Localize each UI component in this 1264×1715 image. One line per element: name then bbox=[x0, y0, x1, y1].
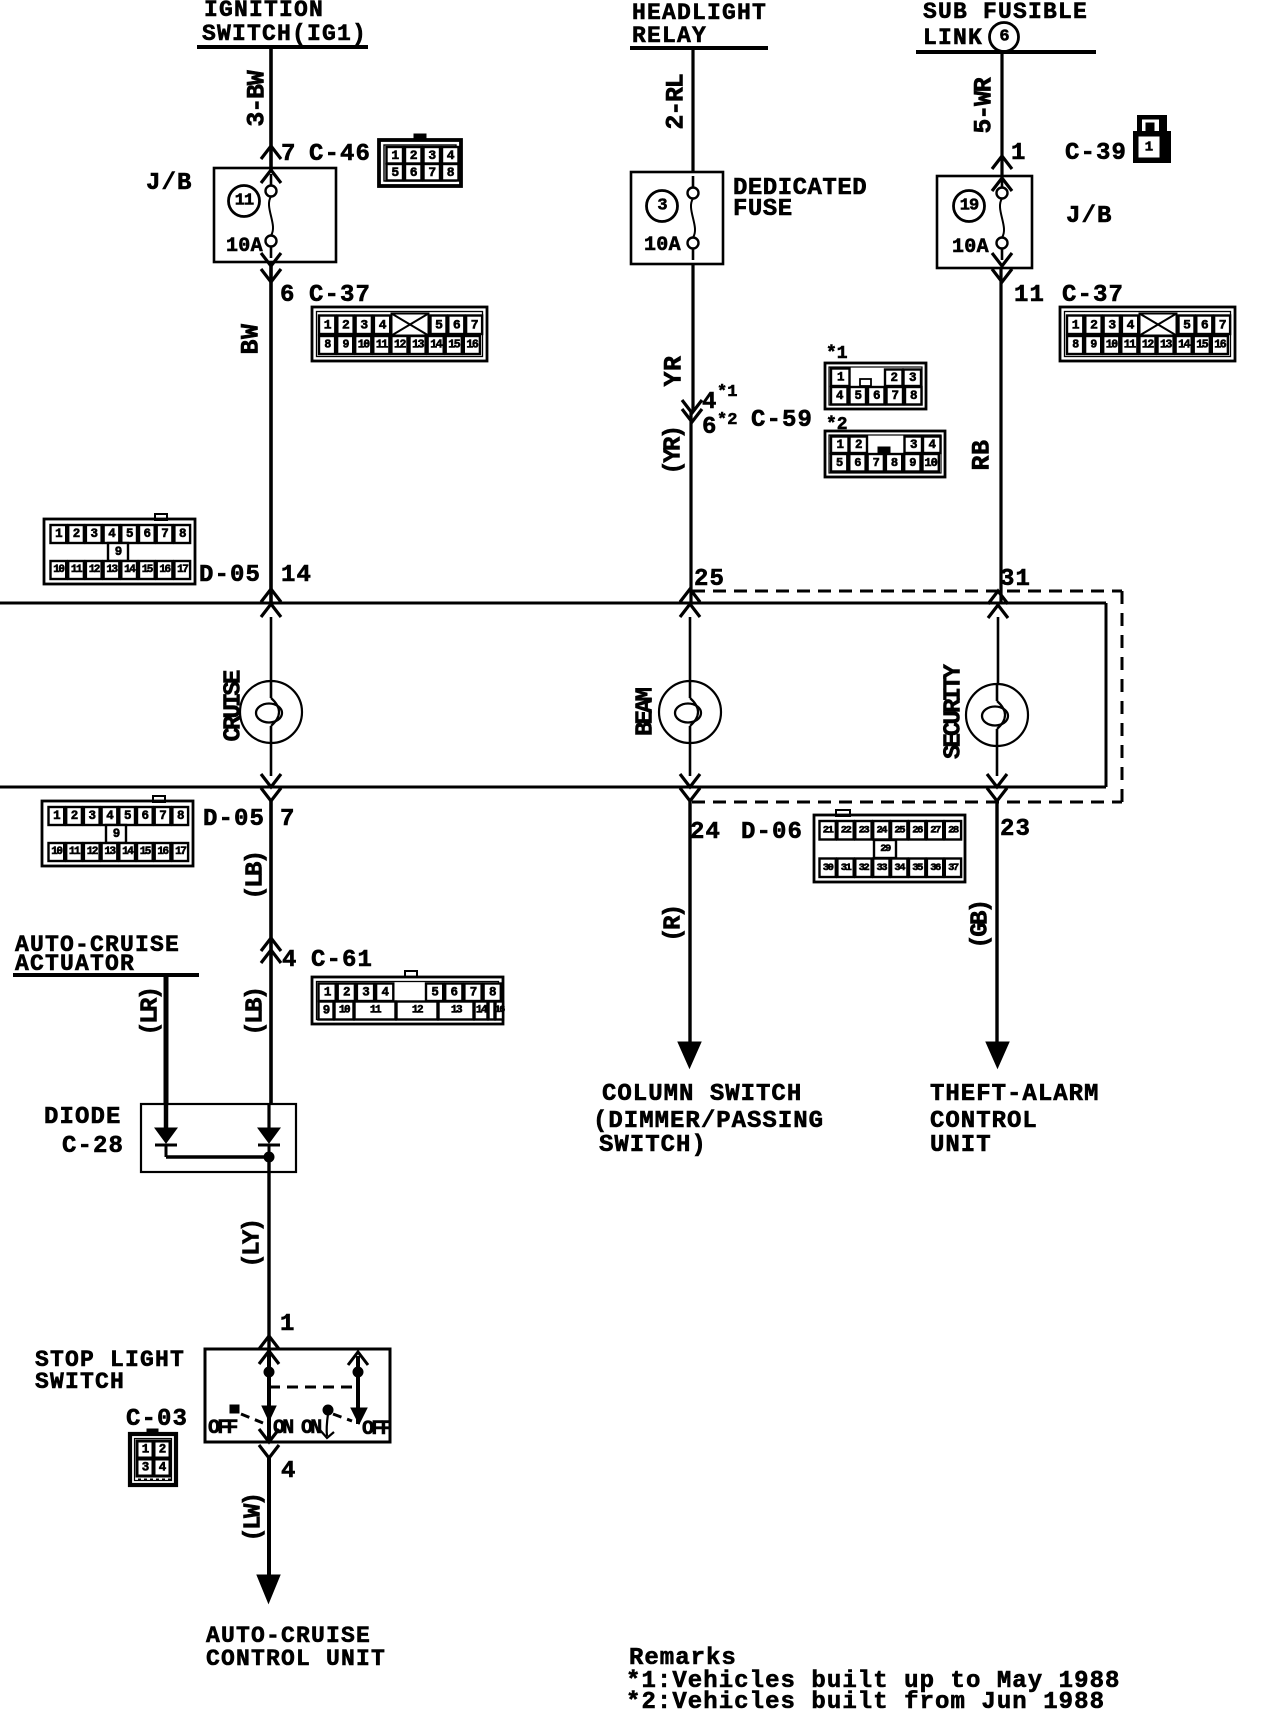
connector icon C-61 16-pin bbox=[312, 971, 505, 1024]
wire label (LW) bbox=[241, 1494, 268, 1541]
lamp label BEAM bbox=[633, 688, 660, 737]
svg-text:17: 17 bbox=[177, 564, 188, 576]
footnote marker *2 connector bbox=[826, 415, 848, 435]
destination label COLUMN SWITCH bbox=[593, 1081, 824, 1159]
svg-text:RELAY: RELAY bbox=[632, 23, 707, 49]
connector pin 11 C-37 bbox=[1014, 282, 1124, 309]
svg-text:2: 2 bbox=[891, 371, 898, 385]
svg-text:3-BW: 3-BW bbox=[243, 70, 272, 126]
svg-text:SWITCH: SWITCH bbox=[35, 1369, 125, 1395]
svg-text:OFF: OFF bbox=[208, 1417, 237, 1440]
svg-text:31: 31 bbox=[841, 862, 852, 874]
wire label (LB) lower bbox=[243, 988, 270, 1035]
svg-text:23: 23 bbox=[859, 824, 870, 836]
right switch travel arrow bbox=[320, 1414, 334, 1438]
meter pin 31 bbox=[988, 566, 1031, 618]
svg-text:4: 4 bbox=[379, 317, 387, 332]
wire label (GB) bbox=[968, 901, 995, 948]
svg-text:6: 6 bbox=[999, 28, 1009, 47]
svg-text:11: 11 bbox=[1124, 339, 1137, 352]
svg-text:(GB): (GB) bbox=[968, 901, 995, 948]
svg-text:12: 12 bbox=[1142, 339, 1155, 352]
svg-text:11: 11 bbox=[235, 192, 254, 211]
svg-text:CRUISE: CRUISE bbox=[221, 670, 248, 742]
wire LB from meter to diode bbox=[269, 801, 273, 1104]
switch internal left pole wire bbox=[267, 1349, 271, 1442]
svg-text:ON: ON bbox=[301, 1417, 321, 1440]
svg-text:D-05: D-05 bbox=[199, 562, 261, 589]
svg-text:IGNITION: IGNITION bbox=[204, 0, 324, 23]
svg-text:6: 6 bbox=[142, 809, 149, 823]
svg-text:12: 12 bbox=[89, 564, 100, 576]
svg-text:*1: *1 bbox=[717, 383, 737, 402]
svg-text:8: 8 bbox=[910, 389, 917, 403]
stop light switch pin 4 bbox=[259, 1429, 297, 1485]
svg-text:2: 2 bbox=[73, 527, 80, 541]
svg-text:25: 25 bbox=[894, 824, 905, 836]
indicator lamp SECURITY bbox=[966, 684, 1028, 746]
svg-text:15: 15 bbox=[448, 339, 461, 352]
svg-text:7: 7 bbox=[280, 806, 296, 833]
svg-text:(LY): (LY) bbox=[240, 1220, 267, 1267]
svg-text:C-37: C-37 bbox=[1062, 282, 1124, 309]
svg-text:C-28: C-28 bbox=[62, 1133, 124, 1160]
svg-text:16: 16 bbox=[159, 564, 170, 576]
svg-text:6: 6 bbox=[144, 527, 151, 541]
svg-text:3: 3 bbox=[89, 809, 96, 823]
connector pin 4 C-61 inline bbox=[261, 938, 373, 974]
svg-text:C-37: C-37 bbox=[309, 282, 371, 309]
fuse 11 circled number bbox=[229, 186, 260, 217]
svg-text:15: 15 bbox=[1196, 339, 1209, 352]
svg-text:SWITCH(IG1): SWITCH(IG1) bbox=[202, 21, 367, 47]
svg-text:14: 14 bbox=[281, 562, 312, 589]
svg-text:25: 25 bbox=[694, 566, 725, 593]
svg-text:3: 3 bbox=[428, 148, 436, 163]
svg-text:4: 4 bbox=[702, 389, 718, 416]
svg-text:4: 4 bbox=[1127, 317, 1135, 332]
svg-text:9: 9 bbox=[115, 545, 122, 559]
svg-text:5: 5 bbox=[855, 389, 862, 403]
dashed link between switch poles bbox=[269, 1386, 358, 1389]
svg-text:9: 9 bbox=[113, 827, 120, 841]
svg-text:5: 5 bbox=[435, 317, 443, 332]
connector label D-05 pin 7 bbox=[203, 806, 296, 833]
connector icon C-37 16-pin (right) bbox=[1060, 307, 1235, 361]
connector pin 1 C-39 bbox=[992, 140, 1127, 169]
svg-text:12: 12 bbox=[87, 846, 98, 858]
svg-text:13: 13 bbox=[1160, 339, 1173, 352]
svg-text:(LW): (LW) bbox=[241, 1494, 268, 1541]
arrowhead to column switch bbox=[678, 1042, 701, 1068]
junction block J/B (left) bbox=[146, 168, 336, 262]
svg-text:2: 2 bbox=[1090, 317, 1098, 332]
fuse symbol 10A in right J/B bbox=[952, 176, 1012, 260]
svg-text:4: 4 bbox=[447, 148, 455, 163]
fuse 3 circled number bbox=[647, 191, 678, 222]
svg-text:10A: 10A bbox=[952, 236, 989, 259]
svg-text:6: 6 bbox=[453, 317, 461, 332]
svg-text:J/B: J/B bbox=[146, 170, 193, 197]
right switch blade arrow bbox=[351, 1408, 367, 1424]
switch internal right pole wire bbox=[348, 1352, 368, 1424]
svg-text:8: 8 bbox=[489, 985, 496, 999]
switch position label OFF (right) bbox=[362, 1418, 391, 1441]
connector icon C-59 type *2 10-pin bbox=[825, 431, 945, 477]
destination label THEFT-ALARM CONTROL UNIT bbox=[930, 1081, 1099, 1159]
svg-text:14: 14 bbox=[1178, 339, 1191, 352]
svg-text:C-46: C-46 bbox=[309, 141, 371, 168]
svg-text:3: 3 bbox=[362, 985, 369, 999]
svg-text:2: 2 bbox=[159, 1443, 166, 1457]
svg-text:1: 1 bbox=[280, 1311, 296, 1338]
wire joining diodes bbox=[166, 1155, 269, 1159]
svg-text:27: 27 bbox=[930, 824, 941, 836]
svg-text:(YR): (YR) bbox=[661, 427, 688, 474]
destination label AUTO-CRUISE CONTROL UNIT bbox=[206, 1623, 386, 1672]
svg-text:*1: *1 bbox=[826, 344, 848, 364]
connector icon C-39 1-pin bbox=[1133, 115, 1171, 163]
connector icon C-37 16-pin (left) bbox=[312, 307, 487, 361]
svg-text:THEFT-ALARM: THEFT-ALARM bbox=[930, 1081, 1099, 1108]
wire BW from J/B to combination meter pin 14 bbox=[269, 262, 273, 603]
wire label BW bbox=[237, 323, 266, 354]
svg-text:1: 1 bbox=[53, 809, 60, 823]
svg-text:31: 31 bbox=[1000, 566, 1031, 593]
power source label IGNITION SWITCH(IG1) bbox=[197, 0, 368, 47]
svg-text:COLUMN SWITCH: COLUMN SWITCH bbox=[602, 1081, 802, 1108]
svg-text:19: 19 bbox=[960, 197, 979, 216]
wire LR from actuator to diode bbox=[164, 975, 169, 1104]
wire LY from diode to stop light switch bbox=[267, 1157, 270, 1349]
power source label SUB FUSIBLE LINK 6 bbox=[916, 0, 1096, 52]
remark footnote 1 bbox=[626, 1668, 1120, 1695]
svg-text:7: 7 bbox=[161, 527, 168, 541]
connector pin 6 C-37 bbox=[280, 282, 371, 309]
svg-text:4: 4 bbox=[281, 1458, 297, 1485]
lamp label SECURITY bbox=[941, 663, 968, 759]
connector icon D-06 17-pin bbox=[814, 810, 965, 882]
svg-text:2: 2 bbox=[342, 317, 350, 332]
connector icon D-05 17-pin (upper) bbox=[44, 514, 195, 584]
component label STOP LIGHT SWITCH bbox=[35, 1347, 185, 1395]
svg-text:34: 34 bbox=[894, 862, 905, 874]
svg-text:6: 6 bbox=[854, 456, 861, 470]
power source label HEADLIGHT RELAY bbox=[630, 0, 768, 49]
svg-text:SWITCH): SWITCH) bbox=[599, 1132, 707, 1159]
svg-text:10A: 10A bbox=[226, 235, 263, 258]
junction node left pole bbox=[264, 1367, 274, 1377]
svg-text:3: 3 bbox=[1108, 317, 1116, 332]
indicator lamp CRUISE bbox=[240, 681, 302, 743]
stop light switch pin 1 bbox=[259, 1311, 296, 1364]
wire RB from J/B to meter pin 31 bbox=[999, 268, 1002, 603]
wire label 3-BW bbox=[243, 70, 272, 126]
meter pin 25 bbox=[680, 566, 725, 617]
svg-text:1: 1 bbox=[324, 317, 332, 332]
svg-text:BW: BW bbox=[237, 323, 266, 354]
svg-text:16: 16 bbox=[466, 339, 479, 352]
svg-text:7: 7 bbox=[1219, 317, 1226, 332]
junction node in diode box bbox=[264, 1152, 274, 1162]
left switch blade arrow ON bbox=[262, 1406, 276, 1421]
fuse 19 circled number bbox=[954, 191, 985, 222]
svg-text:28: 28 bbox=[948, 824, 959, 836]
svg-text:10: 10 bbox=[358, 339, 371, 352]
svg-text:16: 16 bbox=[1214, 339, 1227, 352]
dashed option box around beam and security lamps bbox=[692, 591, 1122, 802]
svg-text:10: 10 bbox=[51, 846, 62, 858]
svg-text:CONTROL UNIT: CONTROL UNIT bbox=[206, 1646, 386, 1672]
svg-text:(LR): (LR) bbox=[138, 988, 165, 1035]
svg-text:YR: YR bbox=[660, 355, 689, 386]
svg-text:8: 8 bbox=[177, 809, 184, 823]
svg-text:10A: 10A bbox=[644, 234, 681, 257]
svg-text:C-59: C-59 bbox=[751, 407, 813, 434]
meter pin 24 arrows bbox=[680, 774, 700, 801]
svg-text:2-RL: 2-RL bbox=[662, 74, 691, 129]
svg-text:1: 1 bbox=[1145, 140, 1153, 156]
svg-text:1: 1 bbox=[55, 527, 62, 541]
svg-text:7: 7 bbox=[281, 141, 297, 168]
junction block J/B (right) bbox=[937, 176, 1113, 268]
svg-text:6: 6 bbox=[410, 165, 418, 180]
svg-text:8: 8 bbox=[447, 165, 455, 180]
switch position label ON (left) bbox=[273, 1417, 293, 1440]
wire through security lamp bbox=[997, 617, 998, 776]
inline connector C-59 pins 4/6 bbox=[682, 383, 813, 441]
svg-text:7: 7 bbox=[873, 456, 880, 470]
svg-text:2: 2 bbox=[71, 809, 78, 823]
left switch contact OFF position bbox=[230, 1405, 263, 1423]
meter pin 23 arrows bbox=[987, 774, 1007, 801]
wire label RB bbox=[968, 439, 997, 470]
wire label 2-RL bbox=[662, 74, 691, 129]
svg-text:RB: RB bbox=[968, 439, 997, 470]
svg-text:26: 26 bbox=[912, 824, 923, 836]
svg-text:(LB): (LB) bbox=[243, 988, 270, 1035]
svg-text:SECURITY: SECURITY bbox=[941, 663, 968, 759]
svg-text:3: 3 bbox=[360, 317, 368, 332]
svg-text:9: 9 bbox=[909, 456, 916, 470]
svg-text:1: 1 bbox=[324, 985, 331, 999]
svg-text:1: 1 bbox=[391, 148, 399, 163]
wire label (LB) upper bbox=[243, 852, 270, 899]
svg-text:24: 24 bbox=[876, 824, 887, 836]
connector label C-03 bbox=[126, 1406, 188, 1433]
svg-text:5: 5 bbox=[391, 165, 399, 180]
dedicated fuse label bbox=[733, 175, 867, 223]
wire 3-BW from ignition switch to J/B fuse 11 bbox=[269, 47, 273, 172]
connector icon D-05 17-pin (lower) bbox=[42, 796, 193, 866]
wire label (LR) bbox=[138, 988, 165, 1035]
wire label 5-WR bbox=[970, 77, 999, 133]
remarks heading bbox=[629, 1645, 737, 1672]
svg-text:22: 22 bbox=[841, 824, 852, 836]
svg-text:*2:Vehicles built from Jun 198: *2:Vehicles built from Jun 1988 bbox=[626, 1689, 1105, 1710]
component label AUTO-CRUISE ACTUATOR bbox=[13, 932, 199, 977]
svg-text:OFF: OFF bbox=[362, 1418, 391, 1441]
junction node right pole bbox=[353, 1367, 363, 1377]
svg-text:11: 11 bbox=[1014, 282, 1045, 309]
svg-text:C-61: C-61 bbox=[311, 947, 373, 974]
svg-text:5: 5 bbox=[126, 527, 133, 541]
svg-text:9: 9 bbox=[323, 1004, 330, 1018]
svg-text:7: 7 bbox=[470, 985, 477, 999]
connector icon C-03 4-pin bbox=[130, 1429, 176, 1485]
connector pin 7 C-46 with arrow bbox=[261, 141, 371, 168]
arrowhead to auto-cruise control unit bbox=[257, 1575, 280, 1603]
connector label 24 D-06 bbox=[690, 819, 803, 846]
svg-text:BEAM: BEAM bbox=[633, 688, 660, 737]
svg-text:LINK: LINK bbox=[923, 25, 983, 51]
wire 2-RL from headlight relay bbox=[691, 48, 694, 172]
svg-text:1: 1 bbox=[1072, 317, 1080, 332]
diode D2 (right) bbox=[258, 1104, 280, 1157]
combination meter box bbox=[0, 603, 1106, 787]
svg-text:6: 6 bbox=[280, 282, 296, 309]
wire LW to auto-cruise control unit bbox=[267, 1458, 271, 1596]
switch position label ON (right) bbox=[301, 1417, 321, 1440]
svg-text:2: 2 bbox=[343, 985, 350, 999]
svg-text:*2: *2 bbox=[717, 411, 737, 430]
svg-text:8: 8 bbox=[891, 456, 898, 470]
dedicated fuse box bbox=[631, 172, 723, 264]
wire YR from fuse to meter pin 25 bbox=[691, 264, 693, 603]
svg-text:J/B: J/B bbox=[1066, 203, 1113, 230]
svg-text:6: 6 bbox=[702, 414, 718, 441]
fuse symbol 10A in left J/B bbox=[226, 170, 281, 258]
arrows into combination meter pin 14 bbox=[261, 589, 281, 617]
svg-text:5: 5 bbox=[124, 809, 131, 823]
wire label (LY) bbox=[240, 1220, 267, 1267]
svg-text:12: 12 bbox=[394, 339, 407, 352]
svg-text:7: 7 bbox=[471, 317, 478, 332]
diode box C-28 bbox=[141, 1104, 296, 1172]
svg-text:(DIMMER/PASSING: (DIMMER/PASSING bbox=[593, 1108, 824, 1135]
svg-text:5: 5 bbox=[431, 985, 438, 999]
switch position label OFF (left) bbox=[208, 1417, 237, 1440]
remark footnote 2 bbox=[626, 1689, 1105, 1715]
arrows out of left J/B bbox=[261, 253, 281, 282]
svg-text:(LB): (LB) bbox=[243, 852, 270, 899]
svg-text:1: 1 bbox=[837, 438, 844, 452]
arrows out of right J/B bbox=[992, 253, 1012, 282]
svg-text:32: 32 bbox=[859, 862, 870, 874]
svg-text:5-WR: 5-WR bbox=[970, 77, 999, 133]
svg-text:1: 1 bbox=[837, 370, 844, 384]
stop light switch box bbox=[205, 1349, 390, 1442]
svg-text:21: 21 bbox=[823, 824, 834, 836]
svg-text:D-05: D-05 bbox=[203, 806, 265, 833]
svg-text:5: 5 bbox=[836, 456, 843, 470]
svg-text:35: 35 bbox=[912, 862, 923, 874]
svg-text:3: 3 bbox=[910, 438, 917, 452]
connector icon C-59 type *1 8-pin bbox=[825, 363, 926, 409]
wire R to column switch bbox=[688, 801, 691, 1045]
svg-text:FUSE: FUSE bbox=[733, 196, 793, 223]
svg-text:30: 30 bbox=[823, 862, 834, 874]
wire label (YR) bbox=[661, 427, 688, 474]
svg-text:16: 16 bbox=[157, 846, 168, 858]
svg-text:17: 17 bbox=[175, 846, 186, 858]
svg-text:6: 6 bbox=[873, 389, 880, 403]
svg-text:7: 7 bbox=[159, 809, 166, 823]
wire through cruise lamp bbox=[270, 617, 273, 776]
indicator lamp BEAM bbox=[659, 681, 721, 743]
svg-text:12: 12 bbox=[412, 1005, 423, 1017]
svg-text:8: 8 bbox=[179, 527, 186, 541]
wire label (R) bbox=[661, 906, 688, 941]
wire 5-WR from sub fusible link bbox=[1000, 52, 1003, 176]
svg-text:2: 2 bbox=[410, 148, 418, 163]
svg-text:D-06: D-06 bbox=[741, 819, 803, 846]
connector icon C-46 8-pin bbox=[379, 134, 461, 186]
svg-text:13: 13 bbox=[412, 339, 425, 352]
svg-text:10: 10 bbox=[924, 456, 937, 470]
arrows out of combination meter pin 7 bbox=[261, 774, 281, 801]
diode box labels DIODE C-28 bbox=[44, 1104, 124, 1160]
svg-text:24: 24 bbox=[690, 819, 721, 846]
svg-text:7: 7 bbox=[428, 165, 435, 180]
svg-text:DIODE: DIODE bbox=[44, 1104, 122, 1131]
svg-text:16: 16 bbox=[495, 1005, 506, 1016]
svg-text:C-39: C-39 bbox=[1065, 140, 1127, 167]
svg-text:2: 2 bbox=[855, 438, 862, 452]
footnote marker *1 connector bbox=[826, 344, 848, 364]
svg-text:33: 33 bbox=[876, 862, 887, 874]
svg-text:10: 10 bbox=[53, 564, 64, 576]
svg-text:6: 6 bbox=[451, 985, 458, 999]
svg-text:1: 1 bbox=[1011, 140, 1027, 167]
svg-text:UNIT: UNIT bbox=[930, 1132, 992, 1159]
svg-text:10: 10 bbox=[339, 1005, 350, 1017]
svg-text:(R): (R) bbox=[661, 906, 688, 941]
svg-text:CONTROL: CONTROL bbox=[930, 1108, 1038, 1135]
svg-text:23: 23 bbox=[1000, 816, 1031, 843]
svg-text:4: 4 bbox=[282, 947, 298, 974]
svg-text:6: 6 bbox=[1201, 317, 1209, 332]
diode D1 (left) bbox=[155, 1104, 177, 1157]
wire through beam lamp bbox=[689, 617, 692, 776]
svg-text:1: 1 bbox=[142, 1443, 149, 1457]
svg-text:11: 11 bbox=[376, 339, 389, 352]
svg-text:3: 3 bbox=[909, 371, 916, 385]
connector label D-05 pin 14 bbox=[199, 562, 312, 589]
connector label 23 bbox=[1000, 816, 1031, 843]
svg-text:14: 14 bbox=[430, 339, 443, 352]
svg-text:3: 3 bbox=[142, 1461, 149, 1475]
lamp label CRUISE bbox=[221, 670, 248, 742]
svg-text:37: 37 bbox=[948, 862, 959, 874]
svg-text:10: 10 bbox=[1106, 339, 1119, 352]
fuse symbol 10A dedicated bbox=[644, 176, 699, 260]
svg-text:3: 3 bbox=[91, 527, 98, 541]
wire GB to theft-alarm unit bbox=[995, 801, 998, 1045]
svg-text:5: 5 bbox=[1183, 317, 1191, 332]
right switch pivot bbox=[323, 1405, 333, 1415]
wire label YR bbox=[660, 355, 689, 386]
arrowhead to theft-alarm unit bbox=[986, 1042, 1009, 1068]
svg-text:36: 36 bbox=[930, 862, 941, 874]
svg-text:29: 29 bbox=[880, 843, 891, 855]
svg-text:ON: ON bbox=[273, 1417, 293, 1440]
right switch blade to OFF bbox=[333, 1414, 352, 1421]
svg-text:3: 3 bbox=[657, 197, 667, 216]
svg-text:7: 7 bbox=[892, 389, 899, 403]
